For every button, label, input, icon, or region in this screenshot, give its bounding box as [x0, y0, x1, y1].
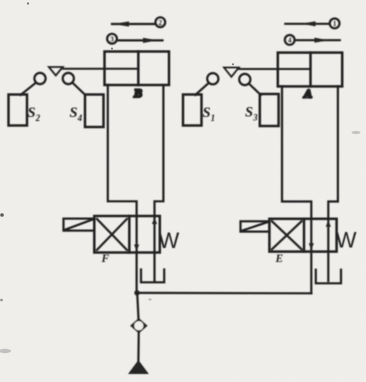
solenoid of valve F [64, 219, 95, 231]
solenoid of valve E [241, 221, 270, 231]
junction node (supply tee) [134, 290, 139, 295]
annotation arrow with circled 1 (cylinder A extend, leftward) [285, 19, 339, 29]
cam (dog) on rod of cylinder A [224, 68, 239, 77]
wire: common supply line between valve F and valve E [137, 292, 311, 295]
wire: pipe from cylinder B right port down through valve F to tank [155, 85, 164, 281]
annotation arrow with circled 3 (cylinder B retract, rightward) [107, 34, 162, 44]
cylinder B (body, piston, rod) [63, 52, 169, 86]
limit switch S3 (roller, lever, body) [239, 74, 278, 126]
cylinder A (body, piston, rod) [239, 53, 342, 87]
paper texture [0, 0, 1, 1]
limit switch S2 (roller, lever, body) [9, 73, 46, 126]
limit switch S1 (roller, lever, body) [183, 73, 218, 125]
wire: check valve to pressure source [137, 333, 140, 360]
tank symbol below valve E [316, 270, 341, 284]
wire: supply line down to check valve [137, 293, 138, 319]
valve E (2-position 4-way solenoid valve) [269, 219, 336, 252]
check valve V1 [130, 318, 148, 333]
valve F (2-position 4-way solenoid valve) [94, 216, 160, 253]
wire: pipe from cylinder A left port down to valve E [282, 86, 311, 293]
pressure source (solid triangle) [128, 360, 149, 374]
wire: pipe from cylinder B left port down to valve F port P/A [108, 85, 137, 293]
limit switch S4 (roller, lever, body) [63, 73, 104, 127]
tank symbol below valve F [141, 270, 164, 283]
annotation arrow with circled 4 (cylinder A retract, rightward) [285, 35, 340, 45]
cam (dog) on rod of cylinder B [49, 67, 63, 76]
annotation arrow with circled 2 (cylinder B extend, leftward) [112, 17, 165, 27]
wire: pipe from cylinder A right port down through valve E to tank [328, 86, 338, 281]
